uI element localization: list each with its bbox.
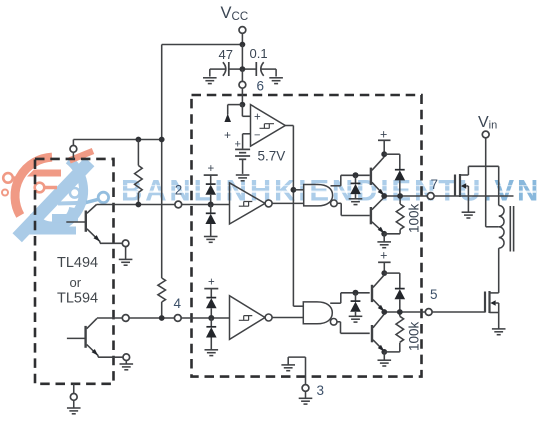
svg-text:+: + [380, 249, 387, 263]
svg-text:−: − [254, 129, 260, 141]
svg-text:5.7V: 5.7V [258, 149, 286, 164]
svg-text:2: 2 [175, 183, 183, 198]
svg-text:4: 4 [174, 296, 182, 311]
svg-text:+: + [208, 163, 215, 175]
svg-text:3: 3 [317, 383, 325, 398]
svg-text:5: 5 [430, 287, 438, 302]
svg-text:7: 7 [431, 177, 439, 192]
svg-text:+: + [235, 139, 241, 151]
svg-text:+: + [380, 128, 387, 142]
svg-text:+: + [254, 112, 261, 124]
svg-text:6: 6 [257, 79, 265, 94]
svg-text:TL594: TL594 [57, 291, 98, 307]
svg-text:47: 47 [219, 47, 233, 62]
svg-text:100k: 100k [407, 203, 422, 233]
svg-text:+: + [224, 128, 231, 142]
svg-text:100k: 100k [407, 321, 422, 351]
svg-text:or: or [70, 275, 82, 290]
svg-text:+: + [208, 277, 215, 289]
svg-text:0.1: 0.1 [250, 46, 268, 61]
svg-text:TL494: TL494 [57, 255, 98, 271]
